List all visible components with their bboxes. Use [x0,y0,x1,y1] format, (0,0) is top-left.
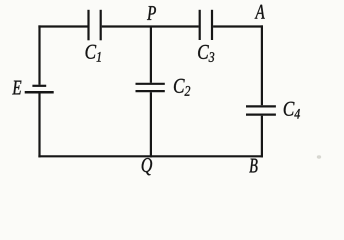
wire bottom (Q-B rail) [38,155,263,157]
battery E long plate [25,91,54,94]
capacitor C2 plates [136,83,165,85]
wire left side lower (battery to corner) [38,93,40,157]
wire middle upper (P to C2) [150,27,152,83]
wire right side lower (C4 to B) [261,116,263,158]
wire top-left (corner to C1) [38,25,87,27]
capacitor C1 plates [87,10,89,41]
capacitor C4 plates [246,105,276,107]
node A label [255,5,265,19]
label C4 [284,102,300,119]
node B label [249,159,257,173]
wire middle lower (C2 to Q) [150,92,152,157]
node Q label [142,158,152,175]
node P label [147,6,156,20]
label C1 [86,45,101,62]
battery label E [12,81,21,95]
wire C3 to corner A [213,25,263,27]
wire C1 to C3 through node P [102,25,199,27]
battery E short plate [32,85,46,87]
wire left side upper (corner to battery) [38,25,40,84]
wire right side upper (A to C4) [261,25,263,105]
label C2 [174,79,190,96]
label C3 [198,45,214,62]
capacitor C3 plates [199,10,201,40]
